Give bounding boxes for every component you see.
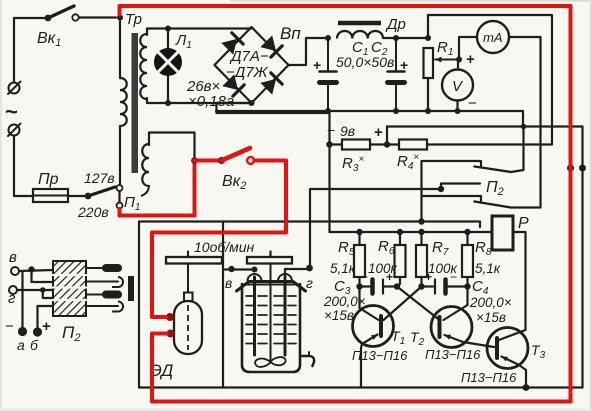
collector bus y232	[330, 231, 493, 233]
wire minus drop	[328, 113, 330, 232]
node C4 right	[464, 283, 470, 289]
node y126 junction	[521, 124, 527, 130]
machine box	[139, 222, 480, 388]
node Tr-top	[117, 15, 123, 21]
svg-text:в: в	[225, 275, 232, 291]
transformer Tr secondary2 winding	[142, 144, 149, 186]
electrode left	[253, 277, 256, 355]
wire T3 emitter	[519, 365, 526, 388]
wire choke to R1 node	[383, 37, 428, 39]
node P2 riser bottom	[418, 218, 424, 224]
resistor R1	[424, 48, 434, 78]
wire fuse to P1	[68, 195, 88, 197]
svg-text:Р: Р	[518, 215, 529, 232]
bath liquid lines r3	[246, 314, 253, 316]
transformer Tr primary wire upper	[119, 21, 121, 78]
wire V bottom	[456, 101, 458, 110]
red wire motor return	[152, 334, 571, 402]
wire AC-bottom to fuse	[14, 136, 33, 196]
motor terminal bottom	[167, 330, 175, 338]
wire P2 middle to bath	[310, 189, 441, 267]
red wire right riser	[120, 6, 571, 402]
plug contact v	[11, 267, 19, 275]
plug row g3	[43, 290, 53, 298]
plug prong 4	[86, 305, 118, 307]
diode D2 top-right	[261, 36, 275, 50]
wire T1 emitter	[361, 344, 362, 388]
node C2 top	[393, 35, 399, 41]
node plug v	[28, 266, 34, 272]
node bus V	[455, 108, 461, 114]
R1 wiper arrow	[435, 59, 459, 61]
plug wire g2	[32, 270, 54, 283]
svg-text:−: −	[468, 95, 477, 112]
contact 220v	[117, 203, 123, 209]
node C3 left	[356, 283, 362, 289]
node R1 top	[425, 35, 431, 41]
wire AC-top to Vk1	[14, 18, 45, 82]
node C1 top	[325, 35, 331, 41]
svg-text:+: +	[400, 57, 408, 73]
svg-text:−: −	[327, 122, 335, 138]
bath left wall	[241, 284, 244, 366]
svg-text:×15в: ×15в	[324, 308, 354, 323]
capacitor C2	[395, 40, 397, 71]
svg-text:9в: 9в	[340, 123, 355, 139]
wire T1 base	[384, 287, 422, 321]
node R5 top	[356, 229, 362, 235]
wire Vk1 to Tr node	[79, 16, 116, 18]
meter mA	[477, 21, 509, 53]
wire P2 fixed riser	[420, 161, 422, 222]
scan edge bottom	[0, 409, 591, 411]
wire bridge minus out	[217, 103, 330, 113]
svg-text:Тр: Тр	[125, 11, 142, 28]
svg-text:в: в	[9, 249, 17, 266]
bath tap	[300, 356, 314, 367]
wire relay right	[513, 232, 526, 330]
transistor T2	[431, 307, 472, 348]
meter V	[442, 70, 473, 101]
fuse Pr	[33, 195, 68, 197]
plug bar	[128, 276, 134, 301]
transformer Tr core	[132, 33, 139, 173]
svg-text:−: −	[5, 318, 14, 335]
svg-text:5,1к: 5,1к	[330, 261, 356, 276]
AC line terminal top	[9, 83, 20, 94]
contact 127v	[117, 185, 123, 191]
wire T2 base	[397, 287, 440, 321]
node T3 emitter	[523, 384, 530, 391]
plug terminal b	[33, 327, 42, 336]
resistor R5	[358, 232, 360, 245]
node R6 top	[397, 229, 403, 235]
plug prong 3	[86, 294, 104, 296]
wire lamp top	[168, 27, 252, 29]
svg-text:100к: 100к	[368, 261, 398, 276]
resistor R3	[333, 143, 342, 145]
pulley motor	[166, 257, 222, 264]
wire bridge plus out	[289, 38, 329, 65]
transformer Tr primary wire lower	[119, 126, 121, 185]
svg-text:П13−П16: П13−П16	[352, 348, 408, 363]
stirrer propeller	[255, 357, 285, 367]
choke Dr core	[338, 21, 381, 26]
diode D3 bottom-left	[223, 75, 237, 89]
svg-text:а: а	[17, 337, 25, 353]
node plug g	[40, 287, 46, 293]
svg-text:mA: mA	[483, 30, 503, 45]
node bus R1	[425, 108, 431, 114]
switch P1 lever	[85, 193, 92, 200]
svg-text:+: +	[374, 124, 383, 141]
scan edge right	[589, 0, 591, 411]
node C4 left	[418, 283, 424, 289]
wire R1 bottom	[427, 78, 429, 109]
node lamp top	[165, 26, 171, 32]
wire electrode right top	[284, 269, 286, 277]
P2 lower lever	[475, 202, 512, 208]
wire top frame	[428, 15, 552, 143]
bath liquid lines r4	[246, 324, 253, 326]
svg-text:127в: 127в	[84, 170, 115, 186]
svg-text:Пр: Пр	[38, 171, 59, 188]
transformer Tr secondary1 top lead	[147, 29, 168, 36]
diode D4 bottom-right	[261, 80, 275, 94]
resistor R8	[466, 232, 468, 245]
svg-text:×0,18а: ×0,18а	[188, 93, 234, 110]
node R3 left	[326, 141, 332, 147]
node bridge bottom	[249, 100, 255, 106]
plug prong 2	[86, 281, 118, 283]
electrode right	[284, 277, 287, 355]
transistor T3	[487, 328, 528, 369]
node R1 wiper	[456, 57, 462, 63]
svg-text:г: г	[306, 275, 313, 291]
red node sec2	[191, 157, 198, 164]
motor ED body	[174, 301, 202, 354]
lamp L1	[154, 48, 182, 76]
switch Vk1	[45, 15, 52, 22]
motor ED top box	[184, 293, 193, 302]
plug contact g	[9, 286, 17, 294]
svg-text:50,0×50в: 50,0×50в	[336, 54, 394, 70]
plug terminal a	[18, 327, 27, 336]
plug block hatch	[53, 261, 86, 316]
capacitor C1	[327, 40, 329, 71]
diode D1 top-left	[222, 40, 236, 54]
wire mA right	[509, 36, 541, 38]
bath right wall	[299, 284, 302, 352]
bath liquid lines r5	[246, 333, 253, 335]
svg-text:200,0×: 200,0×	[469, 295, 512, 310]
wire T2 collector	[466, 287, 468, 306]
node lamp bottom	[165, 100, 171, 106]
svg-text:5,1к: 5,1к	[475, 261, 501, 276]
red wire to Vk2 pivot	[195, 159, 222, 163]
node x581 tap	[579, 165, 586, 172]
svg-text:~: ~	[5, 99, 18, 124]
bath rim	[237, 282, 306, 292]
wire wiper to mA	[459, 37, 476, 60]
P2 upper lever	[475, 167, 512, 173]
wire lamp branch lower	[167, 76, 169, 102]
svg-text:−: −	[361, 270, 368, 284]
transformer Tr secondary1 winding	[140, 34, 147, 99]
stirrer shaft	[270, 264, 272, 360]
node electrode left top	[252, 267, 258, 273]
red wire 220v to Vk2	[120, 209, 195, 216]
bath liquid lines r6	[246, 343, 253, 345]
red wire Vk2 to box	[152, 161, 286, 318]
transformer Tr secondary2 bottom tail	[141, 185, 149, 196]
motor terminal top	[166, 313, 174, 321]
minus bus y111	[216, 110, 523, 112]
node R7 top	[418, 229, 424, 235]
svg-text:П13−П16: П13−П16	[425, 347, 481, 362]
wire battery plus riser	[386, 127, 388, 145]
wire V top	[457, 62, 459, 70]
svg-text:Др: Др	[385, 16, 406, 33]
resistor R4	[399, 140, 427, 150]
wire upper lever out	[511, 127, 524, 173]
battery plus line y126	[387, 125, 583, 127]
svg-text:×15в: ×15в	[476, 310, 506, 325]
resistor R6	[399, 232, 401, 245]
node terminal g	[306, 265, 313, 272]
wire terminal v	[223, 268, 253, 270]
transformer Tr secondary2 top lead	[149, 133, 195, 158]
svg-text:+: +	[42, 318, 51, 335]
svg-text:+: +	[466, 51, 475, 68]
transformer Tr primary winding	[120, 78, 127, 126]
node bus C2	[393, 108, 399, 114]
wire box bottom	[139, 386, 583, 388]
motor shaft	[187, 264, 189, 292]
bath liquid lines r1	[246, 295, 253, 297]
capacitor C3	[360, 285, 371, 287]
svg-text:+: +	[313, 57, 321, 73]
node P2 middle	[438, 186, 444, 192]
bath liquid lines r2	[246, 305, 253, 307]
node bus C1	[325, 108, 331, 114]
node R8 top	[464, 229, 470, 235]
P2 lower fixed contact	[422, 196, 481, 201]
plug wire a	[21, 271, 23, 327]
svg-text:−Д7Ж: −Д7Ж	[226, 64, 269, 81]
plug block row gaps	[53, 274, 86, 276]
svg-text:Вп: Вп	[280, 24, 301, 43]
svg-text:б: б	[30, 337, 39, 353]
motor box right edge	[222, 222, 224, 388]
choke Dr winding	[337, 31, 383, 39]
svg-text:+: +	[386, 270, 393, 284]
capacitor C4	[422, 285, 434, 287]
node C3 right	[394, 283, 400, 289]
wire T1 collector	[358, 287, 360, 309]
P2 middle contact bar	[441, 184, 480, 190]
bridge Vp frame	[215, 27, 289, 103]
svg-text:+: +	[425, 270, 432, 284]
svg-text:10об/мин: 10об/мин	[194, 239, 255, 255]
resistor R7	[420, 232, 422, 245]
switch Vk2	[218, 157, 225, 164]
wire lamp bottom	[168, 102, 252, 104]
svg-text:Д7А−: Д7А−	[229, 48, 269, 65]
plug prong 1	[86, 267, 104, 269]
wire T2 emitter to T3 base	[463, 342, 494, 347]
P2 upper fixed contact	[422, 161, 481, 166]
node red tap	[567, 165, 574, 172]
bath bottom	[242, 352, 300, 372]
wire terminal g	[285, 268, 308, 270]
wire T3 collector	[499, 330, 526, 340]
svg-text:П13−П16: П13−П16	[461, 370, 517, 385]
transistor T1	[353, 306, 394, 347]
relay P coil	[492, 216, 513, 250]
scan edge left	[0, 0, 2, 411]
AC line terminal bottom	[9, 125, 20, 136]
svg-text:−: −	[450, 270, 457, 284]
transformer Tr secondary1 bottom lead	[147, 98, 168, 103]
node R3R4	[384, 141, 390, 147]
wire right drop x581	[581, 127, 583, 388]
svg-text:220в: 220в	[77, 204, 109, 220]
pulley bath	[247, 257, 292, 264]
wire lamp branch upper	[167, 30, 169, 49]
wire mA down	[511, 37, 541, 208]
scan edge top	[230, 0, 591, 2]
plug wire b	[38, 306, 54, 328]
node terminal v	[228, 266, 234, 272]
